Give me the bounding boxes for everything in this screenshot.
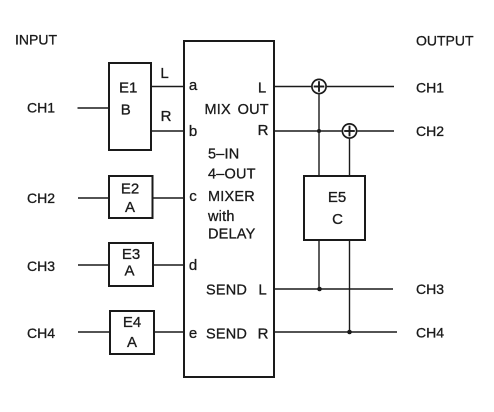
- svg-text:b: b: [189, 123, 197, 140]
- svg-text:e: e: [189, 325, 197, 342]
- svg-text:5–IN: 5–IN: [208, 147, 239, 163]
- svg-text:CH3: CH3: [27, 258, 55, 274]
- svg-text:CH1: CH1: [27, 100, 55, 116]
- svg-text:A: A: [124, 263, 134, 280]
- svg-text:L: L: [258, 80, 266, 97]
- svg-text:E3: E3: [122, 246, 140, 263]
- svg-text:CH4: CH4: [27, 325, 55, 341]
- svg-text:MIXER: MIXER: [208, 189, 255, 205]
- svg-text:c: c: [189, 188, 197, 205]
- svg-text:CH2: CH2: [27, 190, 55, 206]
- svg-text:E4: E4: [123, 314, 141, 331]
- svg-text:DELAY: DELAY: [208, 227, 256, 243]
- svg-text:L: L: [160, 65, 168, 82]
- svg-text:a: a: [189, 77, 198, 94]
- svg-text:A: A: [125, 199, 135, 216]
- svg-text:SEND: SEND: [206, 283, 247, 299]
- svg-text:d: d: [189, 257, 197, 274]
- svg-text:CH4: CH4: [416, 325, 444, 341]
- svg-text:SEND: SEND: [206, 327, 247, 343]
- svg-text:4–OUT: 4–OUT: [208, 167, 256, 183]
- svg-text:E1: E1: [119, 80, 137, 97]
- svg-text:A: A: [127, 334, 137, 351]
- svg-text:CH3: CH3: [416, 281, 444, 297]
- svg-text:E5: E5: [328, 189, 346, 206]
- svg-text:C: C: [332, 211, 343, 228]
- svg-text:INPUT: INPUT: [15, 32, 57, 48]
- svg-text:B: B: [121, 102, 131, 119]
- svg-text:R: R: [258, 326, 269, 343]
- svg-text:CH2: CH2: [416, 123, 444, 139]
- svg-text:OUTPUT: OUTPUT: [416, 33, 474, 49]
- svg-text:CH1: CH1: [416, 80, 444, 96]
- svg-text:L: L: [258, 282, 266, 299]
- svg-text:with: with: [207, 209, 235, 225]
- svg-text:E2: E2: [121, 181, 139, 198]
- svg-text:R: R: [258, 122, 269, 139]
- svg-text:R: R: [161, 108, 172, 125]
- svg-text:MIX OUT: MIX OUT: [205, 102, 269, 118]
